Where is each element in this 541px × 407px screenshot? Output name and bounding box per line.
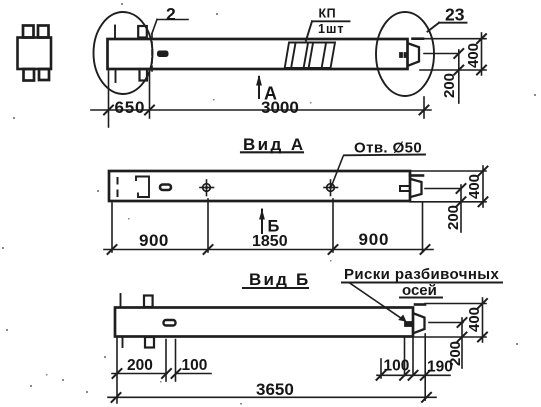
top view dashed cut line	[151, 34, 153, 71]
top view end tab line	[413, 37, 424, 40]
top view slot	[158, 51, 169, 57]
svg-text:23: 23	[445, 5, 465, 25]
svg-text:Риски разбивочных: Риски разбивочных	[344, 266, 500, 283]
top view loop pair below beam	[140, 69, 148, 81]
svg-text:190: 190	[427, 359, 453, 376]
svg-text:100: 100	[182, 357, 208, 374]
svg-text:400: 400	[466, 174, 483, 199]
svg-text:Отв. Ø50: Отв. Ø50	[354, 140, 422, 157]
svg-text:1шт: 1шт	[318, 22, 345, 36]
top view loop pair above beam	[138, 26, 147, 38]
svg-text:Вид Б: Вид Б	[249, 270, 310, 289]
vid A 400 extensions	[410, 170, 486, 172]
svg-text:3650: 3650	[256, 380, 294, 399]
svg-text:200: 200	[127, 357, 153, 374]
vid A title underline	[241, 151, 303, 153]
top view 400 bottom extension	[420, 69, 486, 71]
vid B left dim extensions	[116, 337, 118, 403]
otv leader	[332, 157, 344, 187]
svg-text:КП: КП	[319, 7, 337, 21]
svg-text:1850: 1850	[252, 233, 288, 250]
vid B centerline	[429, 322, 463, 324]
top view main dim line	[91, 109, 431, 111]
cross-section bottom stud left	[24, 69, 35, 81]
cross-section top stud right	[38, 26, 49, 38]
vid A 400 dim line	[482, 166, 484, 207]
vid B 400 top extension	[425, 303, 486, 305]
vid A end plate tab	[400, 186, 410, 191]
vid A end trapezoid	[411, 179, 422, 197]
top view dim extension lines	[108, 71, 110, 127]
vid B title underline	[243, 287, 308, 289]
vid B 200 dim line	[461, 318, 463, 368]
vid A centerline to 200	[425, 188, 461, 190]
riski underline 2	[400, 297, 442, 299]
vid B end plate	[405, 322, 413, 327]
top view 200 dim line	[458, 50, 460, 103]
svg-text:900: 900	[139, 231, 169, 250]
top view beam outline	[108, 39, 408, 69]
vid B loop above	[144, 296, 153, 308]
vid B end tab	[415, 303, 425, 306]
vid A slot	[160, 185, 171, 191]
svg-text:650: 650	[115, 98, 146, 117]
svg-text:400: 400	[466, 307, 483, 332]
vid A hole mark 2	[330, 180, 332, 196]
svg-text:2: 2	[166, 4, 176, 24]
riski underline 1	[342, 282, 502, 284]
vid A dim line	[104, 249, 433, 251]
svg-text:200: 200	[445, 205, 462, 230]
top view right detail ellipse	[376, 12, 434, 96]
top view 400 top extension	[423, 38, 486, 40]
top view end small plate	[400, 53, 403, 58]
vid A hole mark 1	[206, 180, 208, 196]
svg-text:Вид А: Вид А	[243, 135, 306, 154]
top view 400 dim line	[481, 33, 483, 75]
vid B 3650 dim line	[108, 396, 436, 398]
svg-text:А: А	[264, 84, 277, 104]
cross-section top stud left	[23, 26, 34, 38]
view B arrow	[261, 210, 263, 234]
vid B right dim extensions	[380, 359, 382, 378]
top view left loop mark above beam	[114, 26, 116, 38]
vid B beam outline	[115, 308, 413, 337]
vid A beam outline	[109, 171, 410, 201]
cross-section bottom stud right	[39, 69, 49, 80]
vid B dash above	[120, 294, 122, 307]
riski leader arrow	[349, 283, 403, 320]
vid A 200 dim line	[460, 185, 462, 232]
vid B dash below	[122, 337, 124, 347]
svg-text:900: 900	[359, 230, 390, 249]
vid B left dim lines	[112, 373, 167, 375]
vid B 400 dim line	[482, 298, 484, 342]
svg-text:400: 400	[465, 43, 482, 68]
vid B slot	[164, 320, 176, 326]
vid A end tab	[410, 174, 423, 177]
vid B right dim line	[377, 374, 450, 376]
KP hatch block	[285, 43, 335, 69]
view A arrow	[258, 77, 260, 98]
svg-text:осей: осей	[402, 282, 437, 299]
top view left detail ellipse	[94, 12, 153, 94]
top view end trapezoid (riska)	[409, 44, 420, 66]
label 2 leader	[157, 19, 188, 21]
vid A dim extensions	[111, 203, 113, 252]
vid A hidden dashes left	[117, 178, 119, 184]
KP label underline + leader	[312, 20, 350, 22]
svg-text:100: 100	[384, 358, 410, 375]
vid A bracket detail	[136, 177, 149, 198]
label 23 leader	[439, 22, 467, 24]
vid B 400 bottom extension	[415, 336, 486, 338]
svg-text:200: 200	[441, 73, 458, 98]
top view centerline to 200 dim	[424, 53, 459, 55]
vid B end trapezoid	[414, 314, 425, 334]
vid B loop below	[145, 337, 154, 348]
top view left loop mark below beam	[115, 70, 117, 82]
cross-section view body	[18, 38, 52, 70]
